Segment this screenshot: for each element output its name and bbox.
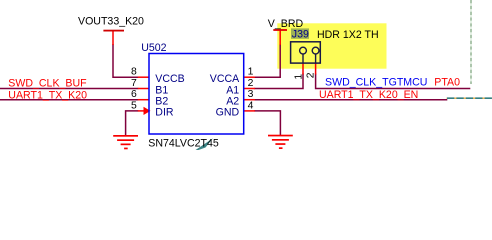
svg-text:VCCA: VCCA [210,73,240,85]
svg-text:GND: GND [216,107,240,119]
svg-text:3: 3 [248,89,254,100]
svg-text:1: 1 [248,67,254,78]
svg-text:UART1_TX_K20_EN: UART1_TX_K20_EN [319,89,418,101]
svg-text:SWD_CLK_BUF: SWD_CLK_BUF [8,78,87,90]
svg-text:SN74LVC2T45: SN74LVC2T45 [148,137,219,149]
svg-text:J39: J39 [292,29,309,41]
svg-text:4: 4 [248,100,254,111]
svg-text:DIR: DIR [155,107,174,119]
svg-text:PTA0: PTA0 [434,76,460,88]
svg-text:HDR 1X2 TH: HDR 1X2 TH [317,29,379,41]
svg-text:VOUT33_K20: VOUT33_K20 [78,16,144,28]
svg-text:SWD_CLK_TGTMCU: SWD_CLK_TGTMCU [325,76,427,88]
svg-text:8: 8 [131,67,137,78]
svg-text:B1: B1 [155,84,168,96]
svg-text:1: 1 [294,74,305,80]
svg-text:UART1_TX_K20: UART1_TX_K20 [8,90,87,102]
svg-text:2: 2 [248,78,254,89]
svg-text:2: 2 [305,72,316,78]
svg-text:7: 7 [131,78,137,89]
svg-text:A1: A1 [226,84,239,96]
svg-text:6: 6 [131,89,137,100]
svg-text:5: 5 [131,100,137,111]
svg-text:A2: A2 [226,96,239,108]
svg-text:U502: U502 [141,42,166,54]
svg-text:B2: B2 [155,96,168,108]
svg-text:VCCB: VCCB [155,73,184,85]
